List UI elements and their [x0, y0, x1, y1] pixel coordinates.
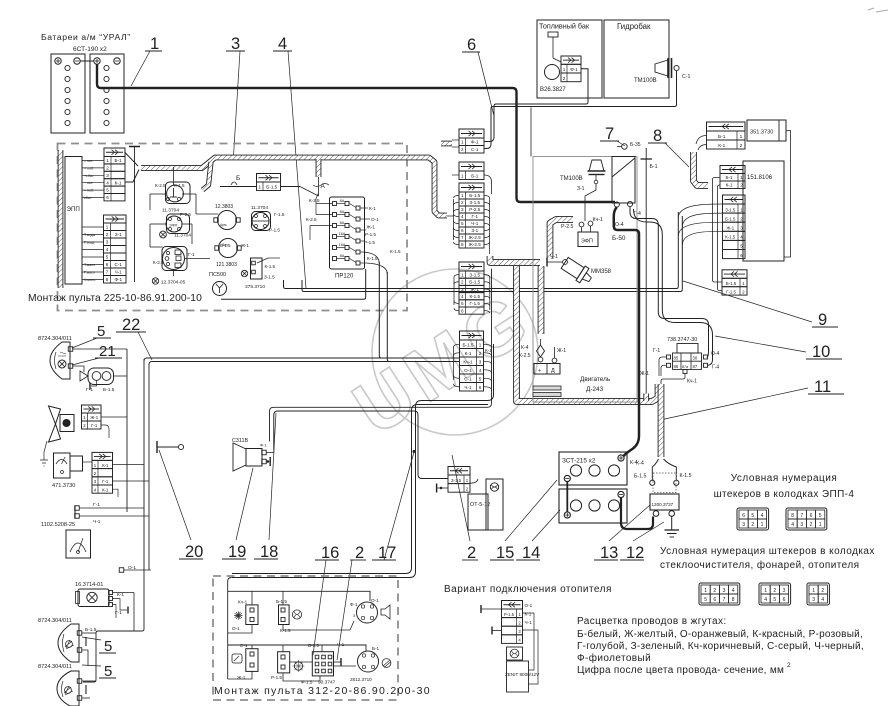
svg-text:штекеров в колодках ЭПП-4: штекеров в колодках ЭПП-4: [714, 489, 855, 500]
headlamp 8724.304 mid: [38, 618, 97, 666]
svg-text:6СТ-190 х2: 6СТ-190 х2: [73, 46, 107, 53]
svg-text:Г-1: Г-1: [102, 479, 109, 484]
svg-text:С-1: С-1: [115, 262, 123, 267]
svg-text:О-1: О-1: [525, 603, 533, 608]
svg-text:3: 3: [742, 522, 745, 528]
switch 375.3710: [241, 258, 280, 290]
svg-text:Д: Д: [551, 368, 555, 374]
svg-text:ЗСТ-215 х2: ЗСТ-215 х2: [562, 458, 596, 465]
svg-text:Ф-1: Ф-1: [350, 602, 358, 607]
label numeration wipers: [660, 546, 875, 571]
svg-text:8А: 8А: [340, 254, 345, 258]
connector block 151.8106: [743, 161, 784, 261]
svg-text:К-1.5: К-1.5: [174, 183, 185, 188]
svg-text:З-1.5: З-1.5: [469, 200, 480, 205]
wire horn to heater connector: [274, 411, 448, 479]
svg-text:Двигатель: Двигатель: [580, 376, 611, 383]
callout 20: [159, 450, 203, 561]
node O-1: [119, 565, 151, 572]
svg-text:12: 12: [626, 544, 644, 562]
svg-text:Кч-1: Кч-1: [463, 360, 473, 365]
svg-text:3: 3: [461, 287, 464, 292]
svg-text:2: 2: [740, 143, 743, 149]
labels B-1.5 Zh-1: [220, 243, 250, 248]
connector stack 6-row upper: [454, 262, 490, 314]
relay 738.3747-30: [640, 337, 720, 385]
svg-text:Ж-1: Ж-1: [471, 287, 480, 292]
svg-text:87: 87: [693, 364, 698, 369]
svg-text:12.3803: 12.3803: [215, 204, 233, 210]
callout 21: [72, 343, 122, 365]
svg-text:Б-1.5: Б-1.5: [469, 193, 480, 198]
svg-text:4: 4: [461, 214, 464, 219]
svg-text:3: 3: [723, 588, 726, 594]
svg-text:Р-2.5: Р-2.5: [469, 207, 480, 212]
label numeration EPP: [714, 473, 855, 500]
svg-text:2: 2: [461, 280, 464, 285]
svg-text:З-1.5: З-1.5: [725, 207, 736, 212]
icon EPP 8pin: [786, 508, 827, 530]
svg-text:7: 7: [605, 125, 614, 143]
svg-text:3: 3: [461, 207, 464, 212]
svg-text:6: 6: [783, 597, 786, 603]
svg-text:+: +: [538, 368, 541, 374]
svg-text:1102.5208-25: 1102.5208-25: [41, 522, 75, 528]
svg-text:Б: Б: [236, 175, 240, 182]
svg-text:Г-1.5: Г-1.5: [470, 301, 481, 306]
switch wiper 2812.3710: [350, 646, 391, 682]
wire pair B-50 to relay: [630, 207, 713, 365]
svg-text:14: 14: [522, 544, 540, 562]
callout 6: [462, 36, 494, 116]
svg-text:К-1: К-1: [115, 180, 122, 185]
svg-text:11: 11: [814, 378, 831, 396]
callout 17: [372, 452, 414, 562]
callout 10: [715, 336, 842, 361]
svg-text:С-1: С-1: [240, 643, 248, 648]
svg-text:К-1.5: К-1.5: [725, 235, 736, 240]
svg-text:Б-1.5: Б-1.5: [469, 280, 480, 285]
svg-text:Б-1.5: Б-1.5: [725, 216, 736, 221]
svg-text:17: 17: [378, 544, 396, 562]
svg-text:О-4: О-4: [615, 222, 624, 228]
svg-text:5: 5: [704, 597, 707, 603]
svg-text:1: 1: [150, 35, 159, 53]
sensor MM358: [547, 254, 612, 287]
svg-text:4: 4: [479, 368, 482, 373]
svg-text:2: 2: [461, 147, 464, 152]
svg-text:Ф-1.5: Ф-1.5: [301, 680, 313, 685]
callout 14: [516, 510, 560, 562]
wire tableA to tableC: [713, 178, 723, 291]
callout 12: [620, 522, 664, 562]
svg-text:Монтаж пульта 225-10-86.91.200: Монтаж пульта 225-10-86.91.200-10: [28, 293, 202, 304]
svg-text:7: 7: [106, 270, 109, 275]
svg-text:Ж-1: Ж-1: [726, 226, 734, 231]
svg-text:16: 16: [321, 544, 339, 562]
svg-text:7: 7: [723, 597, 726, 603]
svg-text:стеклоочистителя, фонарей, ото: стеклоочистителя, фонарей, отопителя: [660, 559, 860, 571]
svg-text:2: 2: [751, 522, 754, 528]
svg-text:К-1: К-1: [102, 487, 109, 492]
wire thick battery cable: [97, 64, 615, 202]
gauge 12.3803: [214, 204, 240, 230]
svg-text:2812.3710: 2812.3710: [350, 677, 372, 682]
svg-text:3: 3: [106, 240, 109, 245]
lamp 16.3714-01: [75, 582, 134, 618]
battery 6CT-190 x2: [41, 32, 131, 133]
fuse block PR120: [330, 197, 365, 280]
callout 11: [660, 378, 844, 420]
heater OT-5-12: [468, 479, 503, 530]
svg-text:121.3803: 121.3803: [216, 262, 237, 268]
svg-text:19: 19: [228, 543, 246, 561]
icon conn 4pin: [807, 583, 829, 605]
buzzer PS500: [209, 272, 227, 296]
svg-text:С311В: С311В: [232, 438, 248, 444]
svg-text:2: 2: [467, 544, 476, 562]
svg-text:18: 18: [260, 543, 278, 561]
svg-text:Б-1: Б-1: [471, 174, 479, 179]
svg-text:С-1: С-1: [682, 74, 690, 80]
svg-text:9: 9: [818, 311, 827, 329]
signal horns: [80, 349, 127, 512]
svg-text:4: 4: [761, 513, 764, 519]
svg-text:8724.304/011: 8724.304/011: [38, 618, 72, 624]
svg-text:Ч-1: Ч-1: [464, 385, 472, 390]
svg-text:сбат.: сбат.: [84, 196, 92, 200]
svg-text:ЭПП: ЭПП: [67, 206, 80, 213]
svg-text:ММ358: ММ358: [591, 269, 612, 275]
svg-text:З-1.5: З-1.5: [451, 478, 462, 483]
svg-text:2: 2: [563, 76, 566, 81]
svg-text:7: 7: [461, 235, 464, 240]
svg-text:2: 2: [713, 588, 716, 594]
callout 19: [222, 468, 253, 561]
svg-text:87а: 87а: [682, 365, 688, 369]
svg-text:4: 4: [106, 180, 109, 185]
svg-text:8А: 8А: [340, 199, 345, 203]
svg-text:Б-1: Б-1: [718, 134, 726, 140]
svg-text:Кч-1: Кч-1: [687, 379, 697, 385]
svg-text:Цифра после цвета провода- сеч: Цифра после цвета провода- сечение, мм: [577, 664, 784, 676]
svg-text:5: 5: [461, 301, 464, 306]
svg-text:16А: 16А: [339, 232, 346, 236]
svg-text:2: 2: [810, 522, 813, 528]
svg-text:Б-1.5: Б-1.5: [463, 343, 474, 348]
wires pult312 buses: [228, 578, 370, 682]
svg-text:2: 2: [461, 200, 464, 205]
headlamp 8724.304 upper: [38, 336, 127, 379]
svg-text:Б-50: Б-50: [612, 235, 626, 242]
svg-text:6: 6: [713, 597, 716, 603]
svg-text:Б-1.5: Б-1.5: [726, 281, 737, 286]
svg-text:К-1.5: К-1.5: [265, 264, 276, 269]
node B: [231, 175, 240, 185]
wires tableB to pair: [678, 204, 722, 245]
svg-text:Условная нумерация: Условная нумерация: [731, 473, 837, 484]
svg-text:6: 6: [106, 195, 109, 200]
svg-text:Кч-1: Кч-1: [593, 217, 603, 223]
svg-text:Г-1.5: Г-1.5: [726, 289, 736, 294]
headlamp 8724.304 low: [38, 664, 96, 706]
svg-text:1: 1: [812, 588, 815, 594]
svg-text:8А: 8А: [340, 210, 345, 214]
watermark: [339, 269, 547, 451]
svg-text:+сбат.: +сбат.: [84, 174, 94, 178]
svg-text:4: 4: [461, 294, 464, 299]
svg-text:Р-2.5: Р-2.5: [180, 212, 191, 217]
svg-text:Б-1.5: Б-1.5: [103, 387, 115, 393]
svg-text:3: 3: [231, 35, 240, 53]
glow plug EFP: [561, 217, 603, 247]
svg-text:738.3747-30: 738.3747-30: [667, 337, 697, 343]
svg-text:Г-1: Г-1: [91, 423, 98, 428]
svg-text:О-1: О-1: [464, 368, 472, 373]
icon conn 6pin: [759, 583, 791, 605]
svg-text:30: 30: [693, 356, 698, 361]
svg-text:Ж-1: Ж-1: [241, 243, 250, 248]
svg-text:Ж-1: Ж-1: [367, 225, 376, 230]
svg-text:Расцветка проводов в жгутах:: Расцветка проводов в жгутах:: [577, 616, 727, 627]
engine box D-243: [531, 108, 637, 403]
svg-text:1: 1: [106, 225, 109, 230]
svg-text:Ж-1: Ж-1: [90, 415, 98, 420]
callout 4: [273, 35, 306, 288]
svg-text:С-1: С-1: [464, 377, 472, 382]
svg-text:Ч-1: Ч-1: [550, 254, 558, 260]
callout 7: [600, 125, 625, 146]
horn C311B: [232, 438, 274, 471]
svg-text:5: 5: [97, 323, 105, 340]
callout 2b: [452, 455, 478, 562]
svg-text:Ч-1: Ч-1: [93, 519, 101, 525]
svg-text:12.3704-05: 12.3704-05: [161, 280, 186, 286]
svg-text:К-2.5: К-2.5: [306, 217, 317, 222]
svg-text:Б-1.5: Б-1.5: [266, 185, 277, 190]
terminal heater ground: [437, 484, 448, 493]
table B 6-row: [723, 195, 746, 259]
svg-text:11.3704: 11.3704: [162, 208, 179, 214]
wire pair pult225 to connector 151: [221, 212, 682, 299]
svg-text:З-1: З-1: [577, 186, 585, 192]
svg-text:Ф-1: Ф-1: [114, 277, 122, 282]
switch 11.3704 no.1: [155, 182, 190, 214]
connector table EPP upper: [104, 148, 125, 201]
svg-text:1: 1: [258, 185, 261, 190]
svg-text:ТМ100В: ТМ100В: [634, 78, 657, 84]
gauge 121.3803: [215, 239, 241, 269]
svg-text:– пит.: – пит.: [84, 159, 93, 163]
callout 22: [116, 316, 152, 360]
svg-text:2: 2: [821, 588, 824, 594]
svg-text:8: 8: [791, 513, 794, 519]
svg-text:16.3714-01: 16.3714-01: [75, 582, 103, 588]
svg-text:1: 1: [106, 158, 109, 163]
callout 18: [254, 413, 278, 561]
svg-text:Р-1.5: Р-1.5: [504, 612, 515, 617]
svg-text:Гидробак: Гидробак: [617, 22, 651, 31]
switch lever: [157, 441, 184, 453]
svg-text:ПР120: ПР120: [335, 274, 354, 280]
svg-text:Б-35: Б-35: [630, 142, 641, 148]
label Montazh pulta 225: [28, 293, 202, 304]
svg-text:Батареи а/м “УРАЛ”: Батареи а/м “УРАЛ”: [41, 32, 131, 42]
svg-text:Б-1: Б-1: [114, 158, 122, 163]
svg-text:Ч-1: Ч-1: [525, 620, 533, 625]
svg-text:Б-1.5: Б-1.5: [85, 627, 97, 633]
svg-text:З-1.5: З-1.5: [469, 272, 480, 277]
svg-text:Т.масл: Т.масл: [84, 263, 95, 267]
svg-text:4: 4: [732, 588, 735, 594]
starter feed terminals +D: [519, 339, 566, 397]
svg-text:5: 5: [751, 513, 754, 519]
svg-text:4: 4: [764, 597, 767, 603]
heater variant connector: [481, 601, 538, 685]
callout 1: [131, 35, 162, 86]
wire K-1.5 pair down from PR120: [379, 262, 394, 362]
svg-text:К-1: К-1: [485, 348, 492, 353]
wiper motor 1102.5208-25: [41, 502, 149, 558]
hydro tank TM100B sensor: [604, 20, 690, 98]
svg-text:1: 1: [461, 193, 464, 198]
connector table EPP lower: [104, 215, 127, 283]
svg-text:8724.304/011: 8724.304/011: [38, 336, 72, 342]
svg-text:1: 1: [740, 175, 743, 180]
svg-text:1: 1: [461, 140, 464, 145]
relay B-50: [612, 157, 641, 243]
svg-text:Г-1: Г-1: [188, 252, 195, 257]
svg-text:1: 1: [704, 588, 707, 594]
callout 3: [226, 35, 245, 156]
svg-text:16А: 16А: [339, 243, 346, 247]
svg-text:Д-243: Д-243: [586, 386, 604, 393]
icon EPP 6pin: [737, 508, 769, 530]
connector heater: [448, 467, 470, 493]
svg-text:1: 1: [461, 174, 464, 179]
svg-text:Б-1.5: Б-1.5: [308, 643, 319, 648]
svg-text:К-2.5: К-2.5: [309, 198, 320, 203]
svg-text:К-1.5: К-1.5: [680, 473, 692, 479]
batteries 3CT-215: [559, 452, 644, 523]
flasher 471.3730: [40, 441, 149, 497]
callout 15: [490, 480, 557, 562]
svg-text:1: 1: [764, 588, 767, 594]
wire fuel sender and C-1 to cab connector: [484, 69, 677, 149]
svg-text:1: 1: [740, 134, 743, 140]
svg-text:Ж-1: Ж-1: [237, 675, 246, 680]
svg-text:Г-голубой, З-зеленый, Кч-корич: Г-голубой, З-зеленый, Кч-коричневый, С-с…: [577, 640, 864, 652]
svg-text:ЭФП: ЭФП: [169, 224, 178, 228]
svg-text:О-4: О-4: [711, 351, 720, 357]
svg-text:Кч-1: Кч-1: [238, 600, 248, 605]
svg-text:К-2.5: К-2.5: [155, 183, 166, 188]
svg-text:8А: 8А: [340, 221, 345, 225]
svg-text:К-2.5: К-2.5: [519, 353, 531, 359]
svg-text:7: 7: [800, 513, 803, 519]
svg-text:151.8106: 151.8106: [747, 175, 773, 181]
table A B-1 K-1: [720, 166, 745, 189]
svg-text:21: 21: [99, 343, 116, 360]
EPP connector block: [65, 157, 104, 285]
svg-text:+ пит.: + пит.: [84, 181, 93, 185]
callout 5c: [82, 663, 116, 680]
svg-text:Ж-2.5: Ж-2.5: [469, 235, 482, 240]
svg-text:ZENIT 8000/12V: ZENIT 8000/12V: [505, 672, 540, 677]
svg-text:10: 10: [812, 343, 830, 361]
svg-text:В26.3827: В26.3827: [540, 87, 566, 93]
svg-text:К-1.5: К-1.5: [469, 294, 480, 299]
svg-text:К-1: К-1: [117, 592, 124, 598]
svg-text:Б-1.5: Б-1.5: [220, 243, 231, 248]
svg-text:Т.воды: Т.воды: [84, 233, 96, 237]
svg-text:3: 3: [783, 588, 786, 594]
svg-text:К-1: К-1: [465, 351, 472, 356]
node A: [313, 177, 329, 196]
table C output: [722, 270, 747, 295]
svg-text:6: 6: [461, 228, 464, 233]
switch fan pult312: [276, 599, 302, 633]
svg-text:1: 1: [563, 67, 566, 72]
wires switch cluster: [150, 167, 218, 276]
callout 9: [683, 281, 838, 329]
svg-text:Р.возд: Р.возд: [84, 241, 95, 245]
svg-text:К-2.5: К-2.5: [153, 260, 164, 265]
svg-text:6: 6: [461, 308, 464, 313]
switch light pult312: [350, 598, 390, 623]
svg-text:5: 5: [461, 221, 464, 226]
harness pult225 to cab: [141, 158, 447, 216]
connector stack B-1: [452, 162, 492, 194]
svg-text:ТМ100В: ТМ100В: [560, 176, 583, 182]
svg-text:Б-1: Б-1: [725, 175, 733, 180]
svg-text:Ф-1: Ф-1: [260, 443, 267, 448]
wire pair to stack5: [144, 358, 460, 365]
svg-text:4: 4: [106, 247, 109, 252]
svg-text:О-1: О-1: [371, 217, 379, 222]
svg-text:ОТ-5-12: ОТ-5-12: [470, 502, 490, 508]
svg-text:2: 2: [773, 588, 776, 594]
svg-text:Б-1: Б-1: [650, 164, 658, 170]
svg-text:8: 8: [106, 277, 109, 282]
switch gauge pult312: [232, 643, 258, 680]
svg-text:8: 8: [653, 127, 662, 145]
svg-text:6: 6: [742, 513, 745, 519]
label wire colors: [577, 616, 864, 676]
icon conn 8pin: [699, 583, 740, 605]
connector B-1.5 inline: [220, 174, 319, 197]
callout 13: [594, 505, 650, 562]
svg-text:Б-1.5: Б-1.5: [276, 599, 287, 604]
svg-text:+ поб.: + поб.: [84, 166, 94, 170]
svg-text:1300.3737: 1300.3737: [652, 502, 674, 507]
svg-text:Ч.мото: Ч.мото: [84, 278, 95, 282]
svg-text:Ф-фиолетовый: Ф-фиолетовый: [577, 652, 651, 664]
svg-text:5: 5: [106, 188, 109, 193]
fuel tank B26.3827 sender: [537, 20, 602, 98]
svg-text:О-1: О-1: [232, 626, 240, 631]
svg-text:К-1: К-1: [102, 463, 109, 468]
connector 351.3730: [707, 120, 787, 149]
wires PR120: [306, 193, 401, 274]
svg-text:Р.масл: Р.масл: [84, 271, 95, 275]
svg-text:6: 6: [810, 513, 813, 519]
svg-text:С-1: С-1: [471, 147, 479, 152]
harness left strip pult225: [58, 150, 64, 288]
svg-text:Г-4: Г-4: [712, 365, 719, 371]
svg-text:5: 5: [104, 663, 112, 680]
starter 1300.3737: [621, 459, 692, 537]
